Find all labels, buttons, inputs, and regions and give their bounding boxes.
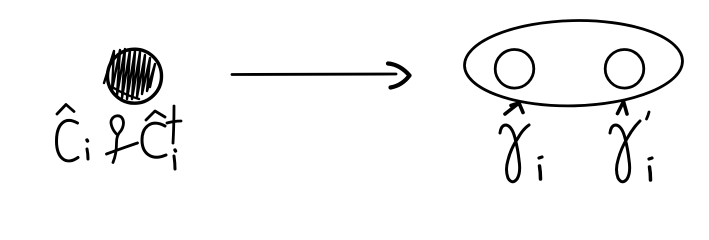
gamma_i subscript dot: [539, 157, 542, 158]
dagger subscript i stroke: [174, 156, 175, 169]
long arrow head: [388, 64, 410, 88]
dagger crossbar: [167, 121, 181, 123]
gamma_i subscript stroke: [540, 166, 541, 179]
dagger subscript i dot: [173, 150, 177, 151]
label C-hat_i : subscript i stroke: [87, 149, 88, 159]
gamma_i glyph: [500, 125, 529, 182]
hatch scribble inside circle: [104, 49, 155, 99]
label C-hat_i : C: [57, 120, 79, 160]
prime mark: [647, 112, 650, 119]
gamma-prime_i subscript dot: [649, 158, 652, 159]
right inner circle: [605, 50, 644, 89]
long arrow shaft: [232, 73, 396, 76]
left inner circle: [495, 50, 534, 89]
label C-hat-dagger_i : hat: [146, 111, 165, 120]
ampersand tail: [107, 143, 138, 154]
right small arrow: [618, 102, 628, 115]
gamma-prime_i subscript stroke: [650, 167, 651, 180]
label C-hat_i : subscript i dot: [85, 140, 89, 141]
left small arrow: [505, 103, 523, 114]
ampersand loop and descender: [111, 116, 123, 163]
hatched circle (fermion site): [108, 49, 162, 103]
label C-hat-dagger_i : C: [142, 123, 166, 157]
label C-hat_i : hat: [57, 105, 74, 115]
dagger vertical: [173, 106, 174, 143]
big ellipse: [464, 18, 684, 108]
gamma-prime_i glyph: [610, 121, 640, 182]
